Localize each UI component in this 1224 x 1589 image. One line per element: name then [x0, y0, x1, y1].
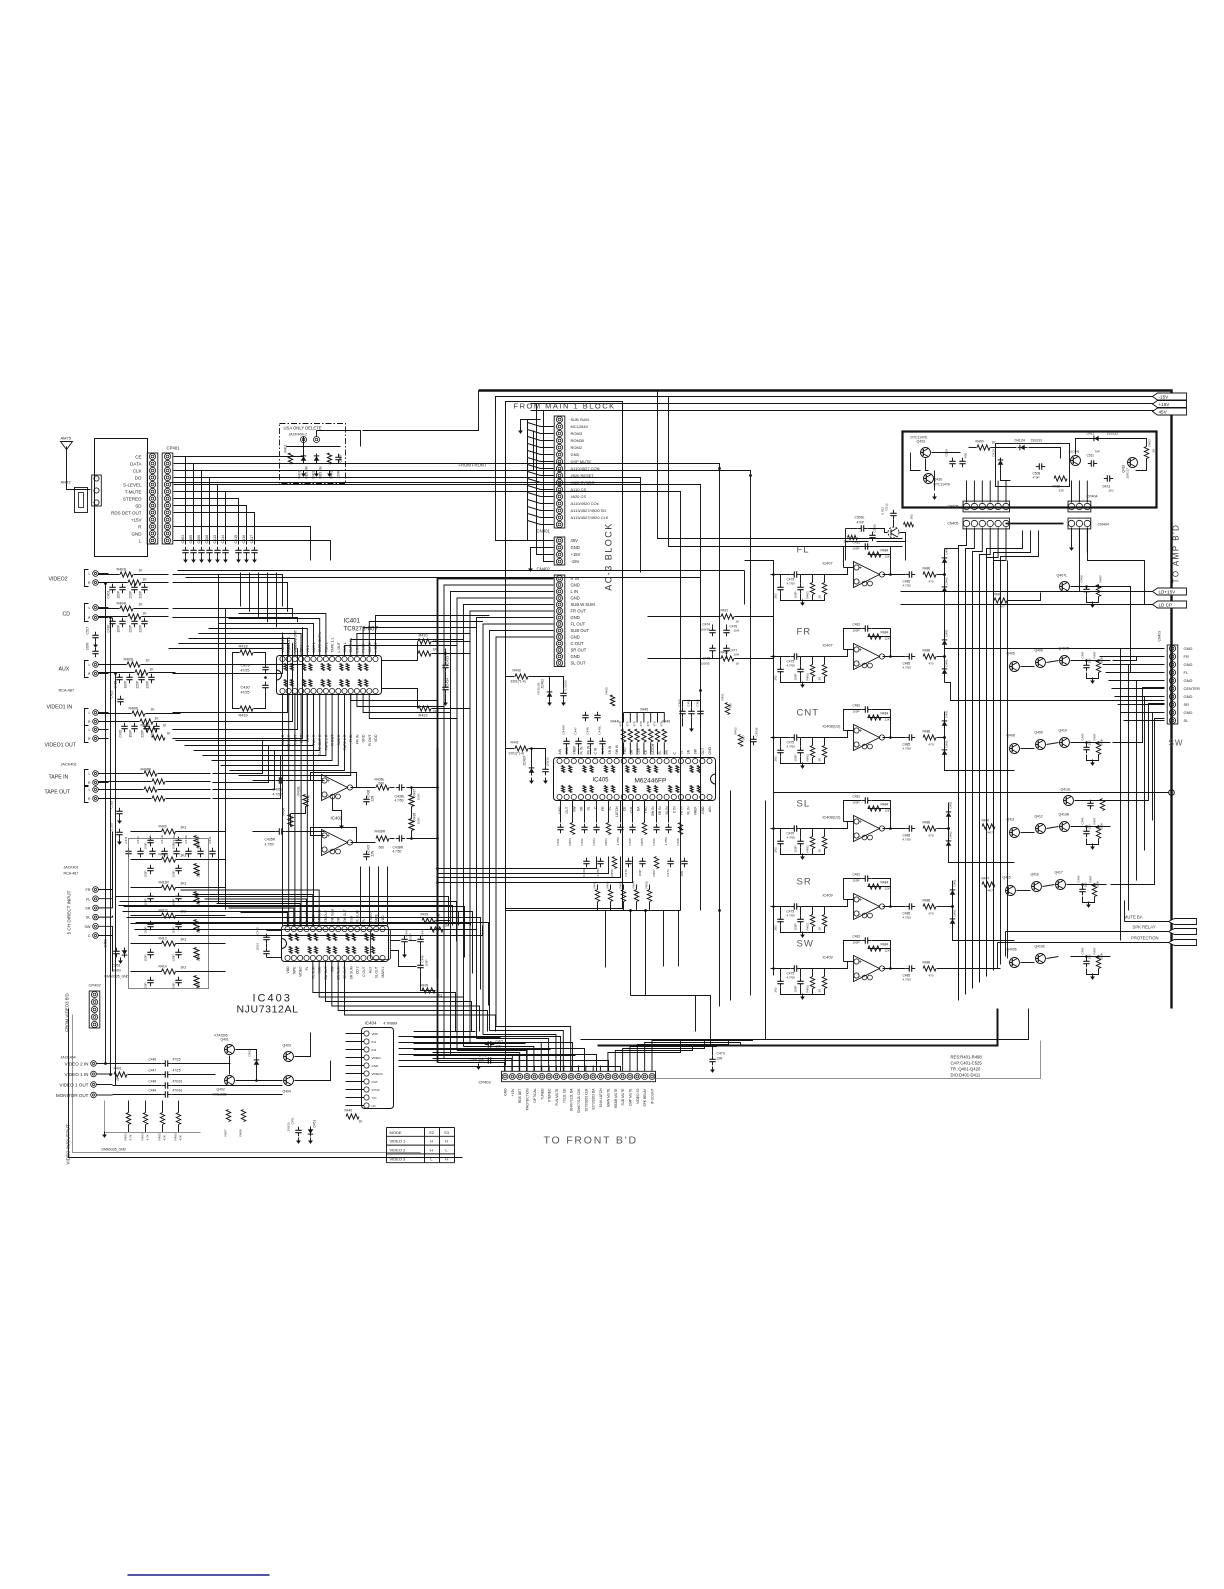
- svg-text:FR: FR: [85, 888, 90, 892]
- wire resistor bank tops: [624, 712, 665, 714]
- antenna AM75: [66, 447, 68, 456]
- svg-text:REAR MUTE: REAR MUTE: [614, 1088, 618, 1108]
- svg-text:IC404: IC404: [365, 1021, 378, 1026]
- svg-text:470: 470: [929, 580, 934, 584]
- svg-text:22N: 22N: [371, 850, 375, 857]
- svg-text:IF COUNT: IF COUNT: [651, 1089, 655, 1105]
- mute diodes FR: [944, 631, 946, 683]
- svg-text:R454: R454: [604, 838, 608, 846]
- diode D401: [301, 456, 307, 460]
- svg-text:100P: 100P: [129, 730, 133, 737]
- svg-text:C520: C520: [110, 823, 114, 831]
- svg-text:FR: FR: [601, 806, 605, 811]
- svg-text:ZD403: ZD403: [523, 756, 527, 766]
- capacitor C518: [95, 648, 97, 652]
- wire heavy top/right border to amp board: [479, 391, 1172, 1009]
- svg-text:C510L: C510L: [873, 523, 877, 532]
- resistor R433R: [288, 815, 293, 827]
- wire CP401 L/R outputs: [174, 527, 311, 561]
- svg-text:AM75: AM75: [61, 436, 72, 441]
- component cluster below IC405: [560, 824, 562, 828]
- capacitor C404-C415 bypass row: [185, 547, 187, 551]
- transistor Q403: [284, 1052, 294, 1062]
- svg-text:D411: D411: [1087, 432, 1095, 436]
- connector ANT jacks: [92, 475, 102, 506]
- capacitor C508: [1036, 466, 1040, 468]
- svg-text:JACK402: JACK402: [61, 763, 77, 767]
- svg-text:H: H: [430, 1139, 433, 1144]
- svg-text:R420: R420: [419, 634, 428, 638]
- svg-text:100P: 100P: [853, 941, 860, 945]
- svg-text:C481: C481: [853, 795, 861, 799]
- diode D402: [314, 456, 320, 460]
- svg-text:R484: R484: [881, 712, 889, 716]
- transistor Q418: [1128, 458, 1138, 468]
- svg-text:M62446FP: M62446FP: [635, 778, 667, 785]
- svg-text:FL OUT: FL OUT: [571, 622, 586, 627]
- svg-text:CP404: CP404: [1087, 495, 1098, 499]
- diode D412H: [1020, 445, 1024, 451]
- svg-text:470P: 470P: [857, 521, 864, 525]
- svg-text:TAPE OUT L: TAPE OUT L: [318, 632, 322, 653]
- svg-text:100K: 100K: [197, 870, 201, 877]
- svg-text:TAPE 1 L: TAPE 1 L: [331, 637, 335, 652]
- svg-text:4.7/50: 4.7/50: [787, 582, 796, 586]
- wire fan from main header: [528, 420, 554, 427]
- wires cluster Q410b: [1021, 962, 1035, 964]
- capacitor C476: [726, 627, 728, 631]
- svg-text:4.7K: 4.7K: [146, 1134, 150, 1140]
- svg-text:TUNED: TUNED: [540, 1088, 544, 1100]
- svg-text:SR SUM: SR SUM: [349, 966, 353, 979]
- capacitor C471: [485, 1044, 489, 1046]
- ic IC405 M62446FP: [554, 758, 716, 801]
- FL top cluster wires: [846, 528, 858, 530]
- transistor Q415: [1006, 886, 1016, 896]
- capacitor C445: [420, 962, 422, 966]
- svg-text:R418: R418: [239, 645, 248, 649]
- resistor R407R: [152, 735, 165, 740]
- svg-text:4K7: 4K7: [1000, 605, 1006, 609]
- svg-text:AC-3 BLOCK: AC-3 BLOCK: [604, 522, 614, 591]
- resistor R408 network tape: [144, 771, 157, 776]
- flag PROTECTION: [998, 942, 1169, 944]
- svg-text:100P: 100P: [853, 629, 860, 633]
- feedback loop B: [311, 828, 357, 843]
- box video in/output section: [69, 1009, 463, 1158]
- svg-text:470: 470: [632, 721, 636, 726]
- svg-text:SR OUT: SR OUT: [343, 967, 347, 979]
- resistor R436L: [376, 785, 389, 790]
- wire CN405-CN404 link: [1006, 523, 1064, 525]
- svg-text:AUX R: AUX R: [281, 734, 285, 745]
- svg-text:SW IN: SW IN: [651, 806, 655, 816]
- ic IC403 NJU7312AL: [282, 926, 389, 962]
- svg-text:TUN L: TUN L: [324, 642, 328, 652]
- svg-text:SW SUM: SW SUM: [337, 966, 341, 980]
- svg-text:VIDEO IN/OUTPUT: VIDEO IN/OUTPUT: [66, 1124, 71, 1165]
- svg-text:470/16: 470/16: [173, 1089, 183, 1093]
- caps left of IC403: [266, 934, 268, 938]
- wires IC403 right: [391, 940, 401, 942]
- wire staircase into IC401 bottom: [176, 695, 308, 741]
- svg-text:100/16: 100/16: [287, 1122, 291, 1132]
- resistor bank above IC405: [621, 729, 625, 742]
- svg-text:+: +: [859, 566, 862, 572]
- wire bus from caps row right: [178, 570, 745, 572]
- capacitor C451: [298, 1127, 300, 1131]
- resistor R421: [418, 651, 431, 656]
- svg-text:R404: R404: [141, 1133, 145, 1141]
- svg-text:R407L: R407L: [141, 724, 151, 728]
- capacitor C517: [95, 632, 97, 636]
- svg-text:C416L: C416L: [184, 834, 188, 843]
- svg-text:4920 CS: 4920 CS: [571, 494, 587, 499]
- svg-text:R486: R486: [923, 821, 931, 825]
- svg-text:C435L: C435L: [273, 788, 283, 792]
- wire fan CP403 left group: [433, 1059, 506, 1066]
- svg-text:3K3: 3K3: [181, 826, 187, 830]
- wires 5ch grid: [131, 831, 162, 833]
- svg-text:C451: C451: [113, 964, 121, 968]
- svg-text:SYNC: SYNC: [372, 1088, 381, 1092]
- svg-text:SUB: SUB: [318, 966, 322, 974]
- transistor Q407L: [1060, 582, 1070, 592]
- svg-text:C444: C444: [421, 929, 425, 937]
- svg-text:IN1: IN1: [372, 1040, 377, 1044]
- svg-text:SR: SR: [579, 806, 583, 811]
- svg-text:R402: R402: [330, 470, 334, 478]
- svg-text:100P: 100P: [172, 954, 176, 961]
- svg-text:GND: GND: [1184, 694, 1193, 699]
- svg-text:CP401: CP401: [167, 446, 181, 451]
- svg-text:R445: R445: [641, 708, 649, 712]
- svg-text:R401: R401: [114, 1067, 122, 1071]
- svg-text:220P: 220P: [139, 625, 143, 632]
- svg-text:4.7/50: 4.7/50: [787, 914, 796, 918]
- svg-text:C509L: C509L: [855, 516, 865, 520]
- resistor R402: [327, 453, 331, 464]
- svg-text:R487: R487: [1093, 733, 1097, 740]
- svg-text:2K7: 2K7: [742, 735, 746, 741]
- wires power box: [926, 459, 929, 471]
- capacitor C511: [1088, 463, 1092, 465]
- svg-text:IC409: IC409: [823, 894, 833, 898]
- wire CP401 fan to bypass caps: [174, 457, 186, 545]
- svg-text:R413: R413: [159, 937, 167, 941]
- svg-text:R465: R465: [645, 881, 649, 889]
- svg-text:2K2: 2K2: [774, 593, 778, 599]
- resistor R495: [994, 598, 1007, 603]
- svg-text:100P: 100P: [144, 926, 148, 933]
- svg-text:4.7/50: 4.7/50: [903, 666, 912, 670]
- svg-text:2K: 2K: [818, 595, 822, 599]
- feedback resistor SL: [868, 806, 881, 811]
- svg-text:SL: SL: [86, 916, 91, 920]
- svg-text:2K2: 2K2: [774, 925, 778, 931]
- svg-text:VIDEO 2: VIDEO 2: [390, 1148, 407, 1153]
- feedback resistor SR: [868, 884, 881, 889]
- svg-text:R463: R463: [619, 881, 623, 889]
- svg-text:GND: GND: [708, 747, 712, 755]
- svg-text:C486: C486: [1080, 575, 1084, 583]
- svg-text:ROM30: ROM30: [571, 438, 586, 443]
- resistor near Q417: [1092, 885, 1096, 897]
- svg-text:STEREO: STEREO: [123, 496, 142, 501]
- svg-text:R483: R483: [806, 673, 810, 681]
- svg-text:4K7: 4K7: [988, 831, 994, 835]
- svg-text:R487: R487: [1093, 651, 1097, 658]
- resistor R438: [409, 819, 414, 831]
- wire vertical drops caps row to staircase: [240, 573, 242, 607]
- svg-text:1K: 1K: [150, 668, 155, 672]
- wire bundle CN402 to lower board: [438, 579, 554, 1063]
- svg-text:DSP MUTE: DSP MUTE: [571, 459, 592, 464]
- svg-text:JACK404-2: JACK404-2: [289, 433, 307, 437]
- flag LD+15V: [901, 591, 1153, 593]
- svg-text:CLK: CLK: [133, 468, 142, 473]
- zener ZD403: [529, 768, 535, 772]
- svg-text:100P: 100P: [172, 842, 176, 849]
- caps cluster left of bank: [566, 738, 568, 742]
- svg-text:FUN MUTE: FUN MUTE: [555, 1088, 559, 1106]
- svg-text:LATCH: LATCH: [651, 743, 655, 754]
- svg-text:GND: GND: [571, 654, 580, 659]
- capacitor near Q410b: [1086, 958, 1088, 962]
- wire into USA box: [174, 437, 304, 457]
- svg-text:47K: 47K: [179, 1135, 183, 1140]
- svg-text:100/16: 100/16: [546, 757, 550, 767]
- svg-text:C417: C417: [250, 535, 254, 544]
- diode D451: [308, 1129, 314, 1133]
- svg-text:100P: 100P: [794, 923, 798, 930]
- svg-text:FL IN: FL IN: [687, 806, 691, 815]
- svg-text:C473: C473: [717, 1052, 725, 1056]
- transistor Q413H: [1060, 822, 1070, 832]
- feedback cap FL: [862, 546, 866, 548]
- svg-text:1SS133: 1SS133: [1031, 439, 1043, 443]
- svg-text:FL SUM: FL SUM: [356, 910, 360, 922]
- svg-text:47/25: 47/25: [241, 691, 250, 695]
- svg-text:LD CP: LD CP: [1159, 603, 1173, 608]
- feedback resistor CNT: [868, 715, 881, 720]
- svg-text:C468: C468: [676, 838, 680, 846]
- wire bottom horizontals: [414, 1031, 476, 1033]
- mute diodes CNT: [944, 712, 946, 764]
- svg-text:1SS133: 1SS133: [1107, 432, 1119, 436]
- svg-text:R487: R487: [1089, 875, 1093, 882]
- svg-text:R483: R483: [806, 591, 810, 599]
- capacitor C520: [119, 829, 121, 833]
- svg-text:R OUT: R OUT: [368, 734, 372, 746]
- svg-text:FROM MAIN 1 BLOCK: FROM MAIN 1 BLOCK: [514, 402, 616, 411]
- svg-text:70P: 70P: [1095, 450, 1100, 454]
- wires cluster Q413H: [1021, 832, 1035, 834]
- capacitor C437: [366, 851, 368, 855]
- jacks 5ch direct: [93, 887, 99, 893]
- svg-text:FR: FR: [665, 749, 669, 754]
- capacitor C519: [119, 808, 121, 812]
- svg-text:S701(*1-4): S701(*1-4): [509, 752, 524, 756]
- svg-text:220P: 220P: [141, 730, 145, 737]
- svg-text:4.7/50: 4.7/50: [787, 664, 796, 668]
- feedback cap CNT: [862, 709, 866, 711]
- svg-text:47/25: 47/25: [173, 1058, 181, 1062]
- svg-text:IC408(1/2): IC408(1/2): [823, 816, 842, 820]
- svg-text:VDD: VDD: [286, 966, 290, 974]
- svg-text:330: 330: [1059, 489, 1064, 493]
- FL top cluster Q419 (dashed): [888, 527, 899, 538]
- svg-text:470: 470: [929, 912, 934, 916]
- feedback wires CNT: [844, 710, 862, 731]
- svg-text:R452: R452: [734, 727, 738, 735]
- svg-text:GND: GND: [558, 806, 562, 814]
- ground IC402: [333, 797, 342, 823]
- junction dots bus crossings: [718, 467, 721, 470]
- zener ZD402: [547, 692, 553, 696]
- svg-text:2K: 2K: [818, 849, 822, 853]
- capacitor C438R: [396, 838, 400, 840]
- svg-text:S3: S3: [444, 1130, 450, 1135]
- wire right bus top staircase: [987, 531, 1023, 561]
- svg-text:R484: R484: [881, 549, 889, 553]
- svg-text:45V: 45V: [571, 538, 579, 543]
- svg-text:Q429: Q429: [917, 440, 926, 444]
- svg-text:L OUT: L OUT: [374, 641, 378, 652]
- svg-text:GND: GND: [571, 596, 580, 601]
- svg-text:4.7/50: 4.7/50: [787, 976, 796, 980]
- wire IC403 top staircase: [241, 913, 288, 926]
- svg-text:SUB MUTE: SUB MUTE: [621, 1088, 625, 1106]
- output network FL: [883, 574, 906, 576]
- resistor R443: [515, 674, 528, 679]
- svg-text:FL: FL: [305, 966, 309, 970]
- svg-text:R419: R419: [239, 714, 248, 718]
- svg-text:-15V: -15V: [1159, 395, 1170, 400]
- transistor Q408: [1010, 744, 1020, 754]
- svg-text:10/16: 10/16: [256, 943, 260, 951]
- transistor Q404: [284, 1076, 294, 1086]
- svg-text:Q407L: Q407L: [1057, 574, 1068, 578]
- svg-text:KTA1505: KTA1505: [215, 1034, 228, 1038]
- svg-text:+: +: [327, 834, 330, 840]
- svg-text:D482: D482: [945, 740, 949, 748]
- svg-text:R486: R486: [923, 567, 931, 571]
- svg-text:0.022: 0.022: [881, 507, 885, 515]
- svg-text:C447: C447: [149, 1069, 157, 1073]
- wire IC401 left bias: [254, 653, 266, 664]
- svg-text:GND: GND: [1184, 710, 1193, 715]
- svg-text:VIDEO 1 OUT: VIDEO 1 OUT: [59, 1082, 88, 1087]
- capacitor C449 video: [162, 1094, 166, 1096]
- svg-text:2K: 2K: [818, 927, 822, 931]
- svg-text:VIDEO S3: VIDEO S3: [636, 1088, 640, 1103]
- svg-text:H: H: [430, 1148, 433, 1153]
- wire ic404 outputs right: [398, 1033, 400, 1035]
- svg-text:SD: SD: [135, 503, 142, 508]
- filter network AUX (R405/C418): [127, 662, 140, 667]
- resistors row2 video: [226, 1110, 230, 1122]
- svg-text:FR IN: FR IN: [355, 734, 359, 744]
- svg-text:1K: 1K: [155, 717, 160, 721]
- svg-text:R462: R462: [606, 881, 610, 889]
- svg-text:3K3: 3K3: [181, 882, 187, 886]
- svg-text:D482: D482: [953, 909, 957, 917]
- svg-text:DATA: DATA: [130, 461, 141, 466]
- wire staircase inputs to switch IC: [119, 906, 453, 926]
- wires IC404 to front connector: [345, 1033, 347, 1035]
- svg-text:100K: 100K: [197, 926, 201, 933]
- connector CP404: [1068, 501, 1091, 512]
- svg-text:100P: 100P: [144, 954, 148, 961]
- svg-text:SUB OUT: SUB OUT: [571, 628, 590, 633]
- filter network VIDEO2 (R403/C401): [120, 572, 133, 577]
- wire jack stubs: [99, 573, 109, 575]
- svg-text:C434: C434: [446, 678, 450, 687]
- svg-text:4.7/50: 4.7/50: [393, 850, 402, 854]
- svg-text:C404: C404: [181, 535, 185, 544]
- svg-text:MUTE BA: MUTE BA: [1124, 915, 1143, 920]
- svg-text:2K2: 2K2: [1109, 489, 1115, 493]
- svg-text:D401: D401: [298, 470, 302, 478]
- svg-text:S-LEVEL: S-LEVEL: [123, 482, 142, 487]
- resistor R437: [409, 795, 414, 807]
- svg-text:SUB R: SUB R: [337, 734, 341, 745]
- svg-text:LD+15V: LD+15V: [1159, 590, 1177, 595]
- wires CN401 to rails: [496, 415, 554, 541]
- svg-text:R490: R490: [976, 440, 984, 444]
- filter network CD (R404/C410): [120, 606, 133, 611]
- filter grid 5ch direct input: [162, 829, 176, 834]
- resistor R420: [418, 639, 431, 644]
- svg-text:D481: D481: [949, 801, 953, 809]
- svg-text:100P: 100P: [794, 845, 798, 852]
- resistor row under IC405 y895: [595, 890, 599, 902]
- svg-text:C451: C451: [291, 1117, 295, 1125]
- svg-text:GND: GND: [701, 806, 705, 814]
- svg-text:GND: GND: [504, 1088, 508, 1096]
- svg-text:NF25.6B: NF25.6B: [537, 683, 541, 695]
- ic IC404: [362, 1028, 394, 1109]
- wires IC401 right: [382, 642, 418, 661]
- wire long SL feed: [774, 792, 1169, 794]
- svg-text:C446R: C446R: [562, 724, 566, 734]
- svg-text:C414L: C414L: [160, 834, 164, 843]
- capacitor near Q413H: [1086, 828, 1088, 832]
- resistor near Q410b: [1096, 957, 1100, 969]
- wire -15V rail: [531, 403, 1157, 405]
- svg-text:SR: SR: [797, 877, 812, 888]
- svg-text:FL: FL: [362, 918, 366, 922]
- wire CN404 to LD flags: [1079, 528, 1081, 592]
- svg-text:D451: D451: [313, 1120, 317, 1128]
- svg-text:D412H: D412H: [1015, 439, 1026, 443]
- mute diodes SL: [948, 803, 950, 855]
- svg-text:10N: 10N: [734, 629, 740, 633]
- svg-text:R442: R442: [511, 741, 519, 745]
- resistor R452: [738, 735, 742, 747]
- capacitor C435R: [276, 831, 280, 833]
- input network SR: [791, 906, 795, 908]
- svg-text:OPTICAL: OPTICAL: [533, 1088, 537, 1102]
- svg-text:R491: R491: [721, 609, 729, 613]
- wires 5ch jacks to grid: [99, 832, 113, 890]
- resistor R489: [1054, 476, 1067, 481]
- svg-text:4.7/50: 4.7/50: [903, 747, 912, 751]
- svg-text:VDD: VDD: [374, 734, 378, 742]
- resistor R490: [977, 445, 990, 450]
- svg-text:12K: 12K: [885, 949, 890, 953]
